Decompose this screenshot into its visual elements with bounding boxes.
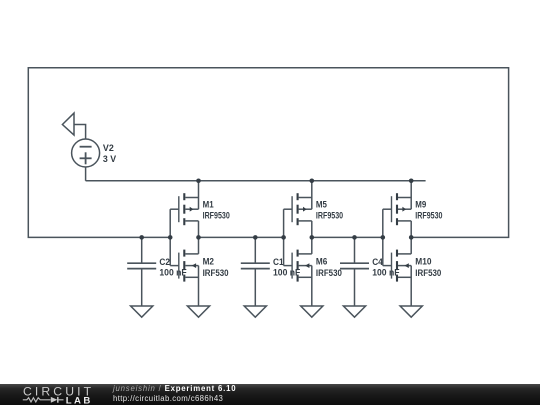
wire M6 drain to output <box>311 237 313 254</box>
capacitor C1 <box>254 237 256 263</box>
svg-text:100 nF: 100 nF <box>159 268 186 279</box>
svg-text:C2: C2 <box>159 257 170 268</box>
wire M5 source to rail <box>311 181 313 209</box>
wire M1 drain to output <box>198 221 200 238</box>
wire M10 drain to output <box>410 237 412 254</box>
ground under C2 <box>131 306 153 317</box>
capacitor C2 <box>141 237 143 263</box>
wire gate net inverter 3 <box>382 209 384 265</box>
svg-text:IRF530: IRF530 <box>415 268 441 279</box>
wire M6 source to ground <box>311 266 313 306</box>
transistor M9 IRF9530 (PMOS) <box>391 196 393 222</box>
ground under M2 <box>187 306 209 317</box>
transistor M10 IRF530 (NMOS) <box>391 253 393 279</box>
wire net output2/input3 <box>312 236 383 238</box>
wire M9 source to rail <box>410 181 412 209</box>
transistor M1 IRF9530 (PMOS) <box>178 196 180 222</box>
footer credit text <box>113 384 236 403</box>
wire M2 drain to output <box>198 237 200 254</box>
wire gate net inverter 1 <box>169 209 171 265</box>
svg-text:M2: M2 <box>203 257 214 268</box>
svg-text:IRF530: IRF530 <box>316 268 342 279</box>
ground under M10 <box>400 306 422 317</box>
transistor M6 IRF530 (NMOS) <box>291 253 293 279</box>
wire gate net inverter 2 <box>283 209 285 265</box>
ground under C4 <box>343 306 365 317</box>
CircuitLab logo <box>0 384 110 405</box>
transistor M2 IRF530 (NMOS) <box>178 253 180 279</box>
junction dots inverter 3 <box>352 235 357 240</box>
wire net output1/input2 <box>199 236 284 238</box>
ground under C1 <box>244 306 266 317</box>
wire M5 drain to output <box>311 221 313 238</box>
svg-text:M1: M1 <box>203 200 215 211</box>
svg-text:M10: M10 <box>415 257 431 268</box>
wire M10 source to ground <box>410 266 412 306</box>
svg-text:IRF530: IRF530 <box>203 268 229 279</box>
ground under M6 <box>301 306 323 317</box>
footer bar <box>0 384 540 405</box>
junction dots inverter 2 <box>253 235 258 240</box>
svg-text:M5: M5 <box>316 200 328 211</box>
svg-text:100 nF: 100 nF <box>273 268 300 279</box>
wire M9 drain to output <box>410 221 412 238</box>
node flag (net marker at V2 negative terminal) <box>62 113 74 135</box>
svg-text:C1: C1 <box>273 257 284 268</box>
svg-text:IRF9530: IRF9530 <box>316 211 343 222</box>
voltage source V2 3 V <box>72 139 100 167</box>
svg-text:IRF9530: IRF9530 <box>415 211 442 222</box>
wire M2 source to ground <box>198 266 200 306</box>
svg-text:LAB: LAB <box>66 396 93 405</box>
svg-text:IRF9530: IRF9530 <box>203 211 230 222</box>
svg-text:M6: M6 <box>316 257 327 268</box>
svg-text:C4: C4 <box>372 257 383 268</box>
svg-text:3 V: 3 V <box>103 154 117 165</box>
transistor M5 IRF9530 (PMOS) <box>291 196 293 222</box>
wire feedback loop (output 3 around to input 1) <box>28 68 508 238</box>
svg-text:100 nF: 100 nF <box>372 268 399 279</box>
wire +3V rail <box>86 180 426 182</box>
wire M1 source to rail <box>198 181 200 209</box>
wire V2 to rail <box>85 167 87 181</box>
capacitor C4 <box>354 237 356 263</box>
svg-text:V2: V2 <box>103 143 114 154</box>
junction dots inverter 1 <box>139 235 144 240</box>
wire flag to V2 <box>74 125 86 140</box>
svg-text:M9: M9 <box>415 200 426 211</box>
